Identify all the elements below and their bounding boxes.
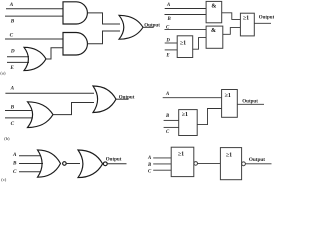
svg-text:Output: Output — [106, 157, 122, 162]
node B (b-right) — [165, 114, 170, 119]
svg-text:≥1: ≥1 — [178, 152, 184, 158]
node Output (a) left — [144, 24, 160, 29]
node Output (b-right) — [242, 100, 258, 105]
svg-text:≥1: ≥1 — [180, 40, 186, 46]
svg-text:A: A — [9, 2, 14, 8]
OR gate U5 — [179, 110, 198, 136]
svg-text:B: B — [167, 17, 172, 22]
svg-text:B: B — [12, 161, 17, 167]
OR gate U4 — [240, 13, 254, 36]
svg-text:(c): (c) — [1, 177, 7, 182]
wire A to U1 — [165, 8, 206, 10]
svg-text:E: E — [9, 65, 14, 71]
wire C to G5 — [5, 117, 32, 119]
wire U2 out to U3 — [193, 38, 206, 50]
wire B to G1 — [5, 15, 63, 17]
NOR gate G8 — [78, 150, 107, 178]
wire U8 output — [245, 163, 271, 165]
NOR gate G7 — [38, 150, 67, 177]
node D — [10, 49, 15, 55]
panel label (b) — [4, 136, 10, 141]
wire A to G6 — [5, 92, 94, 94]
svg-text:A: A — [147, 156, 151, 161]
AND gate G1 — [63, 2, 87, 24]
wire D to G3 — [7, 56, 29, 58]
svg-text:C: C — [166, 130, 170, 135]
svg-text:B: B — [10, 18, 15, 24]
svg-text:C: C — [10, 32, 14, 38]
wire U4 output — [254, 22, 271, 24]
svg-text:Output: Output — [242, 100, 258, 105]
wire C to U7 — [153, 169, 171, 171]
svg-text:C: C — [148, 170, 152, 175]
AND gate G2 — [63, 33, 87, 56]
node A — [9, 2, 14, 8]
wire B to U7 — [153, 163, 171, 165]
node B — [10, 18, 15, 24]
wire G6 output — [116, 98, 129, 100]
wire G2 out to G4 — [87, 31, 120, 44]
wire U1 out to U4 — [222, 13, 241, 20]
svg-text:A: A — [166, 3, 170, 8]
OR gate G5 — [28, 102, 54, 128]
node A (c) — [12, 152, 17, 158]
wire B to G7 — [19, 163, 43, 165]
wire U6 output — [237, 103, 264, 105]
panel label (c) — [1, 177, 7, 182]
wire D to U2 — [165, 42, 178, 44]
wire C to U3 — [165, 29, 207, 31]
svg-text:Output: Output — [259, 16, 274, 21]
node C (c-right) — [148, 170, 152, 175]
svg-text:C: C — [13, 169, 17, 175]
node A (b) — [10, 85, 15, 91]
OR gate U2 — [177, 36, 193, 58]
svg-text:(a): (a) — [0, 71, 6, 76]
OR gate G4 — [119, 15, 143, 39]
node C (c) — [13, 169, 17, 175]
svg-text:Output: Output — [144, 24, 160, 29]
wire E to U2 — [165, 49, 178, 51]
svg-text:Output: Output — [249, 157, 265, 163]
node C (b-right) — [166, 130, 170, 135]
wire C to G2 — [5, 38, 63, 40]
wire U5 out to U6 — [197, 109, 221, 125]
svg-text:B: B — [10, 105, 15, 111]
wire A to U6 — [163, 97, 222, 99]
svg-text:A: A — [165, 92, 169, 97]
svg-text:E: E — [165, 54, 169, 59]
svg-text:≥1: ≥1 — [243, 15, 249, 21]
AND gate U1 — [206, 1, 222, 22]
svg-text:Output: Output — [119, 96, 135, 101]
OR gate U6 — [222, 90, 238, 118]
svg-text:(b): (b) — [4, 136, 10, 141]
NOR gate U7 — [171, 147, 197, 176]
wire G4 output — [143, 26, 154, 28]
svg-text:&: & — [211, 28, 216, 34]
OR gate G6 — [93, 86, 116, 113]
node B (c-right) — [147, 163, 152, 168]
wire U3 out to U4 — [223, 28, 241, 35]
node E (a-right) — [165, 54, 169, 59]
wire E to G3 — [7, 61, 29, 63]
node A (c-right) — [147, 156, 151, 161]
svg-text:≥1: ≥1 — [225, 93, 231, 99]
node B (b) — [10, 105, 15, 111]
wire A to U7 — [153, 157, 171, 159]
wire B to U5 — [164, 119, 179, 121]
node Output (c-right) — [249, 157, 265, 163]
wire G8 output — [107, 163, 126, 165]
wire G1 out to G4 — [87, 13, 120, 24]
node B (a-right) — [167, 17, 172, 22]
wire G7 out to G8 — [66, 163, 80, 165]
NOR gate U8 — [220, 148, 245, 180]
node C — [10, 32, 14, 38]
node E — [9, 65, 14, 71]
node Output (b) left — [119, 96, 135, 101]
node B (c) — [12, 161, 17, 167]
wire C to U5 — [164, 126, 179, 128]
panel label (a) — [0, 71, 6, 76]
node Output (a-right) — [259, 16, 275, 21]
svg-text:D: D — [10, 49, 15, 55]
svg-text:B: B — [147, 163, 152, 168]
wire A to G1 — [6, 8, 63, 10]
node A (a-right) — [166, 3, 170, 8]
svg-text:&: & — [211, 4, 216, 10]
wire G5 out to G6 — [53, 103, 94, 115]
wire B to U1 — [165, 14, 207, 16]
wire A to G7 — [19, 155, 41, 157]
svg-text:A: A — [12, 152, 17, 158]
wire B to G5 — [5, 110, 32, 112]
node C (b) — [11, 121, 15, 127]
node D (a-right) — [165, 38, 170, 43]
OR gate G3 — [24, 47, 46, 70]
svg-text:≥1: ≥1 — [226, 153, 232, 159]
AND gate U3 — [206, 26, 223, 48]
wire C to G7 — [19, 171, 41, 173]
node C (a-right) — [166, 25, 170, 30]
wire U7 out to U8 — [198, 162, 221, 164]
svg-text:C: C — [11, 121, 15, 127]
svg-text:B: B — [165, 114, 170, 119]
wire G3 out to G2 — [46, 48, 63, 59]
node A (b-right) — [165, 92, 169, 97]
svg-text:A: A — [10, 85, 15, 91]
node Output (c) left — [106, 157, 122, 162]
svg-text:≥1: ≥1 — [182, 112, 188, 118]
